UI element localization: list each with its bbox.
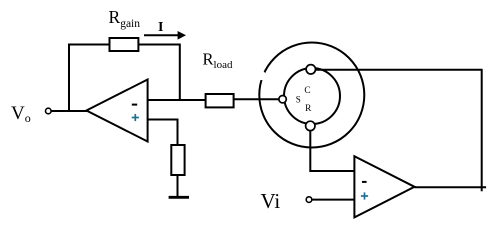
- terminal Vo: [46, 108, 52, 114]
- wire R1 to ground: [177, 175, 179, 197]
- wire Vi to U2 non-inverting: [312, 199, 355, 201]
- wire terminal R down to U2 inverting: [310, 131, 354, 171]
- op-amp U1: [86, 80, 147, 142]
- wire U1 inverting input to Rload: [148, 99, 206, 101]
- wire Rload to sensor terminal S: [234, 98, 280, 100]
- svg-text:Vi: Vi: [261, 189, 281, 213]
- resistor Rload: [206, 94, 234, 107]
- svg-text:I: I: [158, 20, 163, 35]
- resistor R1 to ground: [171, 145, 184, 175]
- terminal S (left): [279, 96, 286, 103]
- wire U1 non-inverting input: [148, 120, 178, 146]
- op-amp U2: [354, 156, 414, 217]
- U2 plus: [361, 192, 368, 199]
- terminal Vi: [306, 197, 312, 203]
- terminal C (top): [306, 65, 315, 74]
- U2 minus: [362, 181, 367, 183]
- gap in outer circle (erase): [257, 71, 266, 80]
- wire U2 output to right rail: [415, 186, 487, 188]
- U1 plus: [132, 114, 139, 121]
- wire feedback left (Vo node up to Rgain): [69, 45, 110, 112]
- resistor Rgain: [110, 38, 139, 51]
- wire Rgain to inverting node: [138, 45, 179, 101]
- svg-text:R: R: [305, 104, 312, 114]
- wire terminal C to right rail: [316, 69, 482, 71]
- sensor inner circle: [284, 68, 340, 124]
- ground: [169, 196, 189, 199]
- svg-text:C: C: [304, 86, 310, 96]
- current arrow I: [144, 34, 179, 36]
- U1 minus: [132, 104, 137, 106]
- terminal R (bottom): [306, 121, 315, 130]
- sensor outer circle: [259, 43, 364, 148]
- right rail wire: [481, 69, 483, 191]
- wire Vo to op-amp output: [51, 110, 87, 112]
- svg-text:S: S: [296, 95, 301, 105]
